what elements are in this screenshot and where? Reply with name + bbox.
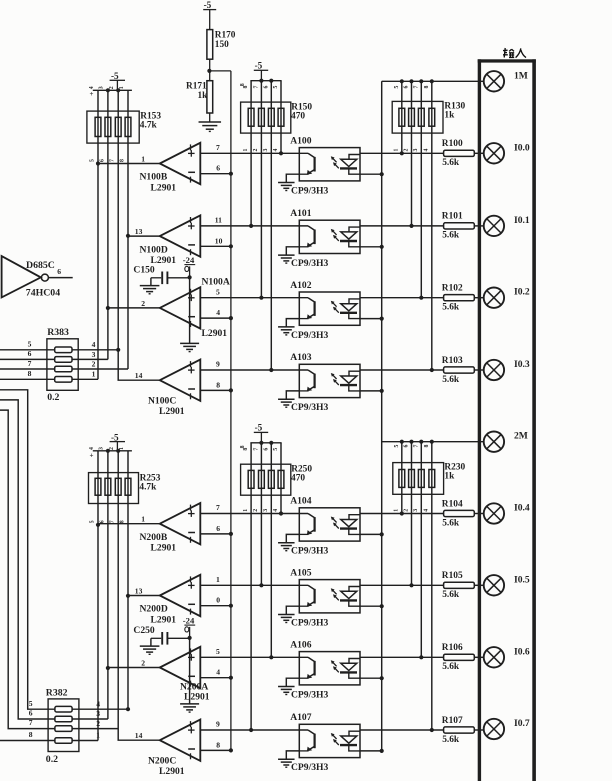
wire: bus b3 lower (R382 pin2 / N200C output): [118, 451, 160, 740]
svg-text:CP9/3H3: CP9/3H3: [291, 617, 329, 628]
svg-text:5.6k: 5.6k: [442, 303, 460, 313]
svg-text:9: 9: [216, 720, 220, 729]
svg-text:5.6k: 5.6k: [442, 518, 460, 528]
terminal strip 输入 (input) header: [503, 48, 526, 58]
svg-text:8: 8: [424, 445, 430, 448]
wire: A105 anode row to R105: [360, 584, 444, 586]
wire: bus b3 (R383 pin4 / N100C output): [118, 90, 160, 380]
svg-text:7: 7: [110, 520, 116, 523]
wire: LED return vertical (to 1M/2M commons): [381, 81, 383, 751]
junction: N200B output on b1: [96, 523, 100, 527]
svg-text:5: 5: [89, 159, 95, 162]
resistor network R383 0.2: [47, 339, 78, 391]
terminal 1M: [484, 71, 504, 91]
svg-text:L2901: L2901: [184, 692, 210, 703]
svg-text:R101: R101: [442, 212, 463, 222]
svg-text:3: 3: [96, 709, 100, 718]
optocoupler A105 CP9/3H3: [299, 580, 360, 613]
svg-text:1: 1: [216, 575, 220, 584]
svg-text:5: 5: [29, 699, 33, 708]
junction: R106 row pull 421.3: [419, 655, 423, 659]
wire: N200C - input to reference line: [200, 749, 231, 751]
svg-text:5: 5: [273, 448, 279, 451]
svg-text:4: 4: [273, 149, 279, 152]
wire: A100 emitter to ground: [286, 174, 299, 182]
svg-text:1: 1: [394, 509, 400, 512]
junction: - input of N200D on reference line: [229, 604, 233, 608]
wire: A106 emitter to ground: [286, 678, 299, 686]
svg-text:N100A: N100A: [202, 276, 230, 287]
svg-text:R104: R104: [442, 499, 463, 509]
wire: junction to reference line: [209, 70, 231, 72]
svg-text:5: 5: [28, 340, 32, 349]
svg-text:4: 4: [424, 509, 430, 512]
op-amp comparator N100B L2901: [160, 143, 201, 184]
svg-text:2: 2: [141, 659, 145, 668]
wire: N100A output to bus: [108, 307, 160, 309]
svg-text:6: 6: [99, 159, 105, 162]
svg-text:8: 8: [29, 730, 33, 739]
wire: input bend line 7 (to R382): [0, 410, 55, 728]
wire: N200D output to bus: [128, 595, 160, 597]
svg-text:4.7k: 4.7k: [139, 483, 157, 493]
svg-text:L2901: L2901: [202, 328, 228, 339]
resistor R105 5.6k: [444, 582, 475, 588]
wire: reference net vertical (comparator - inputs): [230, 71, 232, 752]
wire: N200A + input row to optocoupler: [200, 656, 308, 658]
junction: R102 row pull 421.3: [419, 296, 423, 300]
wire: input bend line 5 (to R382): [0, 390, 55, 709]
svg-text:L2901: L2901: [151, 182, 177, 193]
svg-text:7: 7: [216, 503, 220, 512]
resistor network R382 0.2: [48, 699, 79, 752]
svg-text:5.6k: 5.6k: [442, 735, 460, 745]
resistor R106 5.6k: [444, 654, 475, 660]
terminal I0.5: [484, 575, 504, 595]
wire: A107 emitter to ground: [286, 751, 299, 759]
svg-text:4: 4: [92, 340, 96, 349]
svg-text:6: 6: [29, 709, 33, 718]
junction: -24 / capacitor node: [188, 275, 192, 279]
svg-text:N100C: N100C: [148, 395, 176, 406]
resistor R170 150: [207, 30, 213, 60]
svg-text:14: 14: [135, 731, 143, 740]
op-amp comparator N200D L2901: [160, 575, 201, 616]
svg-text:-5: -5: [255, 60, 263, 70]
wire: A107 LED cathode to return line: [360, 750, 382, 752]
svg-text:A100: A100: [290, 136, 312, 147]
svg-text:8: 8: [243, 448, 249, 451]
wire: N200B + input row to optocoupler: [200, 513, 308, 515]
svg-text:2: 2: [253, 149, 259, 152]
wire: A106 LED cathode to return line: [360, 677, 382, 679]
junction: cathode of A107 on return line: [380, 749, 384, 753]
wire: A104 LED cathode to return line: [360, 533, 382, 535]
ground (at C250): [140, 645, 160, 647]
wire: A100 LED cathode to return line: [360, 173, 382, 175]
terminal I0.7: [484, 719, 504, 739]
wire: N200A output to bus: [108, 667, 160, 669]
svg-text:N200D: N200D: [140, 604, 168, 615]
terminal I0.1: [484, 216, 504, 236]
wire: -24 node down to ground: [189, 638, 191, 703]
wire: A102 emitter to ground: [286, 319, 299, 327]
wire: A105 LED cathode to return line: [360, 605, 382, 607]
svg-text:4: 4: [216, 308, 220, 317]
svg-text:10: 10: [215, 236, 223, 245]
ground (emitter of A100): [278, 182, 295, 184]
svg-text:8: 8: [216, 740, 220, 749]
wire: bus b1 lower (N200B output to R382 pin1): [97, 451, 99, 741]
svg-text:I0.6: I0.6: [514, 646, 530, 657]
terminal I0.2: [484, 288, 504, 308]
junction: R103 row pull 431.8: [430, 368, 434, 372]
terminal I0.6: [484, 647, 504, 667]
ground (emitter of A105): [278, 614, 295, 616]
wire: N200B - input to reference line: [200, 533, 231, 535]
svg-text:3: 3: [263, 509, 269, 512]
junction: N200D output on b4: [126, 594, 130, 598]
ground (below R171): [199, 121, 222, 123]
svg-text:I0.1: I0.1: [514, 215, 530, 226]
svg-text:2: 2: [141, 299, 145, 308]
op-amp comparator N100C L2901: [160, 360, 201, 401]
svg-text:13: 13: [135, 587, 143, 596]
resistor R100 5.6k: [444, 150, 475, 156]
svg-text:C250: C250: [133, 625, 155, 636]
wire: N200C + input row to optocoupler: [200, 729, 308, 731]
wire: A102 LED cathode to return line: [360, 318, 382, 320]
junction: R107 row pull 431.8: [430, 728, 434, 732]
wire: A101 LED cathode to return line: [360, 246, 382, 248]
resistor network R250 470: [250, 442, 281, 444]
svg-text:A105: A105: [290, 568, 312, 579]
optocoupler A104 CP9/3H3: [299, 508, 360, 541]
svg-text:I0.2: I0.2: [514, 287, 530, 298]
svg-text:470: 470: [291, 474, 305, 484]
junction: - input of N100C on reference line: [229, 388, 233, 392]
svg-text:7: 7: [253, 86, 259, 89]
wire: N200D + input row to optocoupler: [200, 584, 308, 586]
svg-text:4: 4: [89, 447, 95, 450]
svg-text:3: 3: [263, 149, 269, 152]
op-amp comparator N200B L2901: [160, 503, 201, 544]
wire: N100B + input row to optocoupler: [200, 152, 308, 154]
svg-text:8: 8: [243, 86, 249, 89]
svg-text:R107: R107: [442, 716, 463, 726]
svg-text:1: 1: [243, 509, 249, 512]
svg-text:2: 2: [96, 719, 100, 728]
wire: R382 pin2 to b3: [72, 728, 118, 730]
svg-text:14: 14: [135, 371, 143, 380]
svg-text:1: 1: [243, 149, 249, 152]
svg-text:3: 3: [413, 509, 419, 512]
junction: - input of N100D on reference line: [229, 244, 233, 248]
junction: cathode of A104 on return line: [380, 532, 384, 536]
optocoupler A102 CP9/3H3: [299, 292, 360, 325]
svg-text:A106: A106: [290, 640, 312, 651]
junction: R101 row pull 411.5: [409, 224, 413, 228]
junction: -24 / capacitor node: [188, 636, 192, 640]
ground (below comparator): [180, 703, 199, 705]
svg-text:1k: 1k: [198, 91, 209, 101]
svg-text:N100B: N100B: [140, 172, 168, 183]
svg-text:5: 5: [394, 86, 400, 89]
svg-text:5.6k: 5.6k: [442, 590, 460, 600]
svg-text:C150: C150: [133, 265, 155, 276]
wire: R382 pin4 to b4: [72, 708, 128, 710]
junction: - input of N100B on reference line: [229, 172, 233, 176]
svg-text:A103: A103: [290, 352, 312, 363]
optocoupler A100 CP9/3H3: [299, 148, 360, 181]
svg-text:2: 2: [403, 149, 409, 152]
wire: bus b4 lower (N200D output to R382 pin4): [127, 451, 129, 709]
ground (emitter of A106): [278, 686, 295, 688]
wire: C250 to ground: [150, 638, 152, 646]
svg-text:7: 7: [110, 159, 116, 162]
inverter gate D685C 74HC04: [2, 256, 41, 297]
svg-text:0: 0: [216, 596, 220, 605]
svg-text:3: 3: [413, 149, 419, 152]
resistor R103 5.6k: [444, 367, 475, 373]
wire: bus b2 lower (N200A output to R382 pin3): [107, 451, 109, 719]
wire: A102 anode row to R102: [360, 297, 444, 299]
junction: pull-up on + row of N100A: [259, 296, 263, 300]
svg-text:L2901: L2901: [151, 614, 177, 625]
wire: -24 node down to ground: [189, 278, 191, 343]
svg-text:2: 2: [109, 447, 115, 450]
junction: - input of N100A on reference line: [229, 316, 233, 320]
wire: R383 pin1 to b1: [72, 378, 98, 380]
wire: input bend line 6 (to R382): [0, 400, 55, 719]
optocoupler A101 CP9/3H3: [299, 220, 360, 253]
resistor R107 5.6k: [444, 727, 475, 733]
svg-text:CP9/3H3: CP9/3H3: [291, 185, 329, 196]
wire: A100 anode row to R100: [360, 152, 444, 154]
wire: input line 6 to R383: [0, 358, 55, 360]
svg-text:8: 8: [216, 380, 220, 389]
op-amp comparator N200C L2901: [160, 720, 201, 761]
svg-text:-24: -24: [183, 255, 195, 265]
junction: pull-up on + row of N100D: [249, 224, 253, 228]
svg-text:7: 7: [29, 718, 33, 727]
svg-text:D685C: D685C: [26, 260, 55, 271]
svg-text:A107: A107: [290, 712, 312, 723]
svg-text:2: 2: [92, 359, 96, 368]
ground (emitter of A104): [278, 542, 295, 544]
terminal I0.3: [484, 360, 504, 380]
wire: 2M common row: [382, 441, 484, 443]
svg-text:L2901: L2901: [151, 543, 177, 554]
optocoupler A106 CP9/3H3: [299, 652, 360, 685]
resistor R102 5.6k: [444, 295, 475, 301]
ground (emitter of A102): [278, 326, 295, 328]
wire: 1M common row: [382, 80, 484, 82]
svg-text:-5: -5: [255, 422, 263, 432]
svg-text:I0.5: I0.5: [514, 574, 530, 585]
svg-text:-5: -5: [204, 0, 212, 10]
wire: N200A - input to reference line: [200, 677, 231, 679]
junction: pull-up on + row of N200D: [259, 583, 263, 587]
svg-text:5.6k: 5.6k: [442, 158, 460, 168]
wire: A104 anode row to R104: [360, 513, 444, 515]
svg-text:1: 1: [141, 515, 145, 524]
wire: bus b1 (N100B output to R383 pin1): [97, 90, 99, 379]
svg-text:CP9/3H3: CP9/3H3: [291, 762, 329, 773]
junction: N100D output on b4: [126, 234, 130, 238]
wire: D685C output: [48, 277, 72, 279]
resistor R171 1k: [209, 71, 211, 81]
wire: input line 8 (to R382): [0, 740, 55, 742]
svg-text:9: 9: [216, 360, 220, 369]
svg-text:5: 5: [273, 86, 279, 89]
svg-text:+: +: [90, 452, 94, 460]
svg-text:2: 2: [253, 509, 259, 512]
svg-text:R102: R102: [442, 284, 463, 294]
svg-text:1: 1: [92, 370, 96, 379]
svg-text:150: 150: [215, 40, 229, 50]
wire: R383 pin4 to b3: [72, 349, 118, 351]
ground (emitter of A107): [278, 758, 295, 760]
svg-text:R106: R106: [442, 643, 463, 653]
junction: pull-up on + row of N100B: [279, 151, 283, 155]
svg-text:74HC04: 74HC04: [26, 288, 60, 299]
junction: R104 row pull 401.8: [400, 511, 404, 515]
svg-text:6: 6: [216, 524, 220, 533]
svg-text:I0.4: I0.4: [514, 503, 530, 514]
svg-text:1: 1: [394, 149, 400, 152]
wire: input line 7 to R383: [0, 368, 55, 370]
svg-text:4: 4: [96, 699, 100, 708]
svg-text:5: 5: [216, 647, 220, 656]
svg-text:8: 8: [119, 159, 125, 162]
capacitor C150: [151, 277, 161, 279]
svg-text:6: 6: [263, 448, 269, 451]
svg-text:8: 8: [28, 369, 32, 378]
svg-text:3: 3: [92, 350, 96, 359]
svg-text:7: 7: [253, 448, 259, 451]
op-amp comparator N100D L2901: [160, 215, 201, 256]
svg-text:13: 13: [135, 227, 143, 236]
wire: A103 emitter to ground: [286, 391, 299, 399]
svg-text:4.7k: 4.7k: [140, 121, 158, 131]
junction: pull-up on + row of N200B: [279, 511, 283, 515]
terminal strip border: [478, 59, 536, 62]
resistor network R150 470: [250, 80, 281, 82]
junction: cathode of A106 on return line: [380, 676, 384, 680]
svg-text:L2901: L2901: [159, 406, 185, 417]
svg-text:1: 1: [119, 86, 125, 89]
wire: R382 pin3 to b2: [72, 718, 108, 720]
svg-text:I0.7: I0.7: [514, 718, 530, 729]
capacitor C250: [151, 637, 161, 639]
svg-text:R383: R383: [47, 327, 69, 338]
wire: N100A - input to reference line: [200, 317, 231, 319]
svg-text:R382: R382: [46, 687, 68, 698]
svg-text:1: 1: [119, 447, 125, 450]
junction: pull-up on + row of N200C: [249, 728, 253, 732]
junction: cathode of A101 on return line: [380, 245, 384, 249]
svg-text:5.6k: 5.6k: [442, 375, 460, 385]
wire: N200D - input to reference line: [200, 605, 231, 607]
junction: - input of N200B on reference line: [229, 532, 233, 536]
svg-text:7: 7: [28, 359, 32, 368]
svg-text:2M: 2M: [514, 431, 528, 442]
junction: N100A output on b2: [106, 306, 110, 310]
junction: pull-up on + row of N200A: [269, 655, 273, 659]
wire: A105 emitter to ground: [286, 606, 299, 614]
junction: cathode of A103 on return line: [380, 389, 384, 393]
svg-text:4: 4: [89, 86, 95, 89]
svg-text:L2901: L2901: [159, 766, 185, 777]
svg-text:7: 7: [413, 445, 419, 448]
svg-text:R105: R105: [442, 571, 463, 581]
wire: A101 emitter to ground: [286, 247, 299, 255]
optocoupler A103 CP9/3H3: [299, 364, 360, 397]
ground (below comparator): [180, 342, 199, 344]
svg-text:6: 6: [28, 349, 32, 358]
svg-text:I0.3: I0.3: [514, 359, 530, 370]
svg-text:8: 8: [119, 520, 125, 523]
ground (emitter of A103): [278, 398, 295, 400]
svg-text:2: 2: [403, 509, 409, 512]
wire: N100B - input to reference line: [200, 173, 231, 175]
wire: bus b2 (N100A output to R383 pin3): [107, 90, 109, 359]
wire: R383 pin2 to b4: [72, 368, 128, 370]
wire: N100B output to bus: [98, 163, 160, 165]
node: R170/R171 junction: [207, 69, 211, 73]
svg-text:N200C: N200C: [148, 755, 176, 766]
op-amp comparator N100A L2901: [160, 287, 201, 328]
junction: cathode of A105 on return line: [380, 604, 384, 608]
svg-text:2: 2: [109, 86, 115, 89]
svg-text:6: 6: [263, 86, 269, 89]
ground (emitter of A101): [278, 254, 295, 256]
wire: N100A + input row to optocoupler: [200, 297, 308, 299]
junction: N100B output on b1: [96, 161, 100, 165]
svg-text:5: 5: [216, 287, 220, 296]
svg-text:5: 5: [394, 445, 400, 448]
junction: cathode of A100 on return line: [380, 172, 384, 176]
svg-text:6: 6: [404, 445, 410, 448]
junction: R105 row pull 411.5: [409, 583, 413, 587]
svg-text:6: 6: [216, 164, 220, 173]
junction: R100 row pull 401.8: [400, 151, 404, 155]
terminal 2M: [484, 432, 504, 452]
wire: R382 pin1 to b1: [72, 740, 98, 742]
svg-text:A102: A102: [290, 280, 312, 291]
junction: N200A output on b2: [106, 666, 110, 670]
junction: - input of N200C on reference line: [229, 748, 233, 752]
svg-text:4: 4: [273, 509, 279, 512]
junction: R382 pin4 on b4: [126, 707, 130, 711]
svg-text:8: 8: [424, 86, 430, 89]
svg-text:CP9/3H3: CP9/3H3: [291, 258, 329, 269]
svg-text:470: 470: [291, 111, 305, 121]
wire: A104 emitter to ground: [286, 534, 299, 542]
wire: N100C - input to reference line: [200, 389, 231, 391]
wire: bus b4 (N100D output to R383 pin2): [127, 90, 129, 369]
svg-text:5: 5: [89, 520, 95, 523]
svg-text:3: 3: [99, 447, 105, 450]
svg-text:6: 6: [99, 520, 105, 523]
optocoupler A107 CP9/3H3: [299, 724, 360, 757]
svg-text:6: 6: [57, 267, 61, 276]
svg-text:5.6k: 5.6k: [442, 662, 460, 672]
svg-text:11: 11: [215, 216, 222, 225]
junction: - input of N200A on reference line: [229, 676, 233, 680]
junction: cathode of A102 on return line: [380, 317, 384, 321]
